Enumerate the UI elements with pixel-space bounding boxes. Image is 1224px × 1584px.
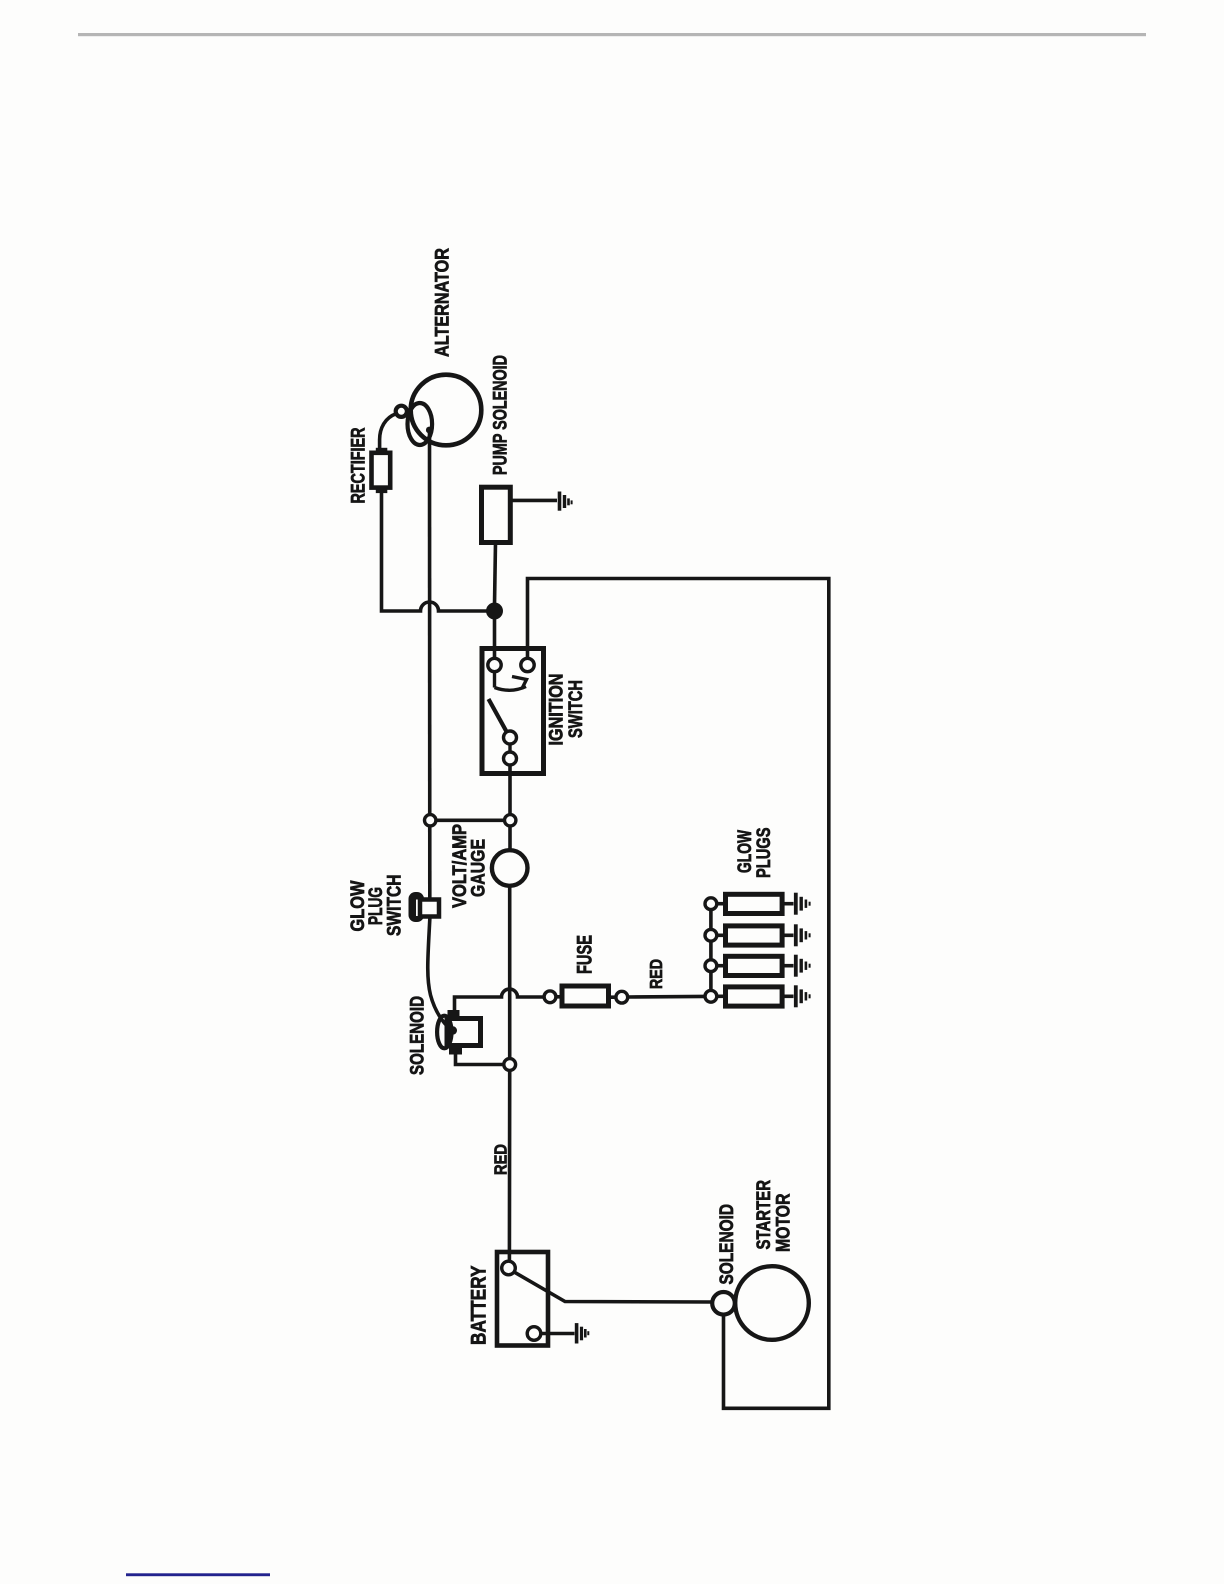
ignition switch box <box>482 649 544 774</box>
label SOLENOID (starter) <box>716 1204 738 1285</box>
ground (glow plug 2) <box>796 924 810 946</box>
svg-text:PUMP SOLENOID: PUMP SOLENOID <box>490 355 512 475</box>
volt/amp gauge circle <box>492 850 528 886</box>
wire: junction down to ignition switch pin <box>493 618 497 659</box>
ground (glow plug 3) <box>796 955 810 977</box>
label RECTIFIER <box>348 428 370 504</box>
ground (pump solenoid) <box>560 492 572 511</box>
glow plug bus terminal 2 <box>705 929 717 941</box>
wire: fuse to glow plug bus <box>628 995 705 999</box>
label FUSE <box>574 935 597 974</box>
wire: tie point to gauge <box>508 826 512 851</box>
glow plug switch cap <box>409 892 425 922</box>
fuse left terminal <box>544 991 556 1003</box>
wire: rectifier down then right to junction, hop over alternator wire <box>382 492 491 611</box>
label BATTERY <box>468 1266 491 1346</box>
wire: gauge down to battery (RED) <box>508 886 512 1262</box>
solenoid coil ellipse <box>437 1016 451 1049</box>
svg-text:RED: RED <box>491 1144 511 1175</box>
svg-text:RECTIFIER: RECTIFIER <box>348 428 370 504</box>
solenoid bottom nub <box>449 1045 462 1055</box>
wire: pump solenoid down to junction <box>495 543 496 606</box>
glow plug bus terminal 1 <box>705 898 717 910</box>
wire: battery negative to ground <box>541 1332 575 1336</box>
svg-text:GAUGE: GAUGE <box>468 839 490 897</box>
wire: ignition switch bottom to tie point <box>508 765 512 815</box>
battery box <box>497 1252 548 1346</box>
glow plug switch stem <box>420 900 439 917</box>
svg-text:PLUGS: PLUGS <box>753 828 775 879</box>
fuse body <box>556 986 616 1006</box>
alternator rotor ellipse <box>408 403 433 445</box>
label ALTERNATOR <box>432 248 454 357</box>
terminal circle below solenoid <box>504 1059 516 1071</box>
starter motor circle <box>735 1266 809 1340</box>
glow plug 4 <box>717 987 794 1006</box>
ground (battery) <box>577 1323 589 1343</box>
pump solenoid body <box>482 487 511 542</box>
wire: cross link at y=820 <box>435 818 505 822</box>
svg-text:RED: RED <box>646 959 666 989</box>
page bottom blue rule <box>126 1573 270 1576</box>
wire: solenoid top to fuse, hop over gauge wire <box>455 989 545 1011</box>
glow plug 1 <box>717 894 794 913</box>
glow plug bus terminal 3 <box>705 960 717 972</box>
fuse right terminal <box>616 991 628 1003</box>
tie terminal on glow wire <box>425 815 436 826</box>
label GLOW PLUG SWITCH <box>347 875 406 937</box>
battery negative terminal <box>527 1327 541 1341</box>
starter solenoid circle <box>712 1292 735 1315</box>
junction dot <box>486 603 503 620</box>
ignition switch pin 1 <box>488 658 501 671</box>
alternator output dot <box>426 427 433 434</box>
alternator body circle <box>411 375 482 446</box>
ignition switch pin 2 <box>521 658 534 671</box>
wire: pump solenoid to ground <box>510 499 557 503</box>
glow plug 3 <box>717 956 794 975</box>
label PUMP SOLENOID <box>490 355 512 475</box>
ignition switch lever <box>489 699 508 733</box>
svg-text:FUSE: FUSE <box>574 935 597 974</box>
label GLOW PLUGS <box>734 828 775 879</box>
svg-text:BATTERY: BATTERY <box>468 1266 491 1346</box>
label STARTER MOTOR <box>753 1180 795 1252</box>
rectifier body <box>372 453 391 488</box>
wire: alternator ring to rectifier <box>380 414 396 450</box>
svg-text:ALTERNATOR: ALTERNATOR <box>432 248 454 357</box>
wire: alternator output down to glow plug switch <box>428 432 432 899</box>
alternator terminal ring <box>396 406 407 417</box>
page top rule <box>78 33 1146 36</box>
svg-text:SOLENOID: SOLENOID <box>407 996 429 1075</box>
glow plug 2 <box>717 926 794 945</box>
svg-text:SWITCH: SWITCH <box>565 680 587 738</box>
rectifier bottom nub <box>376 487 388 494</box>
wire: glow plug switch down-curve to solenoid coil terminal <box>428 905 451 1030</box>
solenoid top nub <box>448 1010 460 1020</box>
svg-text:SWITCH: SWITCH <box>384 875 406 937</box>
svg-text:SOLENOID: SOLENOID <box>716 1204 738 1285</box>
label SOLENOID (glow relay) <box>407 996 429 1075</box>
solenoid coil dot <box>449 1026 457 1034</box>
label RED (battery side) <box>491 1144 511 1175</box>
rectifier top nub <box>376 448 388 455</box>
label IGNITION SWITCH <box>546 674 588 746</box>
ground (glow plug 4) <box>796 985 810 1007</box>
glow plug bus <box>709 904 713 996</box>
tie terminal on gauge wire <box>505 815 516 826</box>
svg-text:MOTOR: MOTOR <box>773 1194 795 1253</box>
wire: solenoid bottom to red wire terminal <box>456 1054 505 1065</box>
wire: battery positive to starter solenoid <box>514 1272 712 1302</box>
ignition switch contact arc <box>495 672 527 691</box>
ground (glow plug 1) <box>796 893 810 915</box>
wire: big loop ignition - right side - starter solenoid <box>528 579 829 1409</box>
glow plug bus terminal 4 <box>705 990 717 1002</box>
solenoid body <box>447 1019 481 1046</box>
label RED (fuse side) <box>646 959 666 989</box>
label VOLT/AMP GAUGE <box>449 824 490 908</box>
ignition switch contact circles <box>504 731 517 765</box>
battery positive terminal <box>502 1261 516 1275</box>
